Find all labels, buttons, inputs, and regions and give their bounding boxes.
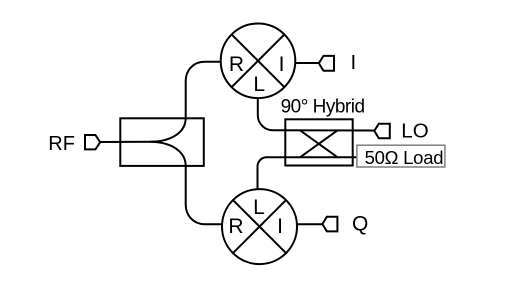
connector Q [322, 217, 337, 232]
hybrid X diagonal 1 [300, 130, 338, 157]
wire M2 I to connector Q [297, 223, 323, 225]
svg-text:I: I [279, 53, 285, 76]
svg-text:L: L [253, 73, 265, 96]
wire splitter lower branch to mixer M2 R [150, 142, 222, 224]
mixer M2 diagonal 1 [233, 200, 286, 253]
mixer M2 circle [222, 189, 297, 264]
svg-text:I: I [277, 215, 283, 238]
svg-text:R: R [229, 53, 244, 76]
svg-text:L: L [253, 196, 265, 219]
connector LO [374, 124, 390, 139]
power splitter box [120, 118, 204, 166]
wire splitter upper branch to mixer M1 R [150, 62, 221, 142]
hybrid coupler box [285, 119, 352, 165]
mixer M1 circle [221, 24, 296, 99]
mixer M2 diagonal 2 [233, 200, 286, 253]
connector I [319, 56, 334, 71]
hybrid X diagonal 2 [300, 130, 338, 157]
connector RF [85, 135, 100, 149]
svg-text:50Ω Load: 50Ω Load [365, 147, 444, 168]
50 ohm load box [357, 145, 445, 167]
wire M1 L to hybrid upper line and LO [258, 98, 375, 131]
svg-text:90° Hybrid: 90° Hybrid [281, 96, 365, 117]
svg-text:RF: RF [48, 133, 75, 155]
mixer M1 diagonal 2 [232, 34, 285, 87]
svg-text:I: I [351, 51, 357, 74]
wire hybrid lower line to M2 L and load [258, 157, 358, 189]
wire M1 I to connector I [295, 62, 319, 64]
svg-text:R: R [228, 215, 243, 238]
svg-text:Q: Q [352, 212, 368, 235]
mixer M1 diagonal 1 [232, 34, 285, 87]
svg-text:LO: LO [401, 119, 428, 142]
wire RF input [100, 141, 157, 143]
